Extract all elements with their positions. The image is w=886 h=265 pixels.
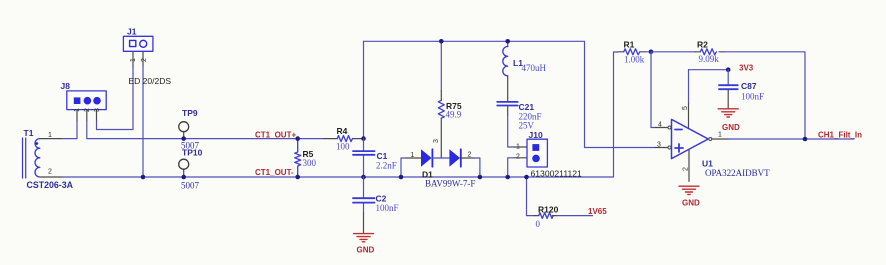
- resistor R2 zigzag: [700, 49, 716, 55]
- D1 right riser: [474, 158, 480, 177]
- svg-text:C1: C1: [377, 151, 388, 161]
- connector J8 body: [67, 91, 106, 110]
- svg-text:1: 1: [130, 58, 137, 62]
- junction R5 top: [295, 136, 300, 141]
- test point TP10 stem: [183, 169, 185, 177]
- svg-text:1.00k: 1.00k: [624, 55, 645, 65]
- 3V3 power dot: [726, 67, 731, 72]
- U1 minus symbol: [675, 129, 682, 131]
- svg-text:2.2nF: 2.2nF: [376, 161, 397, 171]
- capacitor C2: [363, 177, 365, 213]
- J8 pin3 round pad: [93, 97, 101, 105]
- op-amp pin4 stub: [655, 127, 668, 129]
- J8 pin1 stub: [76, 110, 78, 121]
- svg-text:BAV99W-7-F: BAV99W-7-F: [425, 179, 475, 189]
- svg-text:TP10: TP10: [182, 148, 203, 158]
- wire 3V3 to C87: [727, 70, 729, 85]
- svg-text:9.09k: 9.09k: [699, 54, 720, 64]
- svg-text:C2: C2: [376, 194, 387, 204]
- resistor R75 wire from top: [440, 41, 442, 91]
- svg-text:0: 0: [536, 219, 541, 229]
- test point TP9 stem: [183, 132, 185, 139]
- resistor R1 zigzag: [624, 49, 640, 55]
- D1 diode A cathode bar: [431, 149, 433, 166]
- junction R75 top: [439, 39, 444, 44]
- svg-text:49.9: 49.9: [446, 110, 462, 120]
- svg-text:CST206-3A: CST206-3A: [27, 180, 74, 190]
- D1 diode B triangle: [449, 149, 460, 166]
- resistor R75 zigzag: [438, 100, 444, 118]
- R75 bottom lead to D1: [440, 118, 442, 158]
- svg-text:470uH: 470uH: [522, 63, 547, 73]
- capacitor C21: [497, 102, 518, 106]
- wire J10 pin2 to bottom rail: [508, 158, 514, 177]
- J8 pin2 round pad: [84, 97, 92, 105]
- wire R2 right to output riser: [724, 52, 805, 139]
- J8 pin2 stub: [86, 110, 88, 121]
- wire J1.2 down to CT1_OUT- rail: [142, 67, 144, 177]
- junction D1 left: [399, 175, 404, 180]
- connector J1 body: [123, 36, 152, 51]
- J1 pin1 square pad (hollow): [130, 40, 136, 46]
- resistor R120 zigzag: [539, 213, 554, 219]
- junction D1 right: [478, 175, 483, 180]
- svg-text:5007: 5007: [181, 181, 200, 191]
- ground symbol under C2: [354, 234, 374, 242]
- wire R120 drop from bottom rail: [527, 177, 535, 216]
- pin4 end circle: [668, 126, 671, 129]
- inductor L1 coil: [503, 47, 508, 76]
- junction L1 top: [505, 39, 510, 44]
- svg-text:J8: J8: [61, 81, 71, 91]
- resistor R4 leads: [324, 138, 364, 140]
- inductor L1 top wire: [507, 41, 509, 46]
- ground symbol under U1 pin2: [679, 186, 699, 194]
- wire pin5 drop: [688, 70, 690, 104]
- junction R5 bottom: [295, 175, 300, 180]
- svg-text:61300211121: 61300211121: [531, 168, 583, 178]
- junction C1 bottom: [361, 175, 366, 180]
- svg-text:C87: C87: [741, 81, 757, 91]
- wire R1 to junction: [645, 51, 651, 53]
- svg-text:GND: GND: [357, 246, 375, 255]
- J1 pin1 stub: [132, 52, 134, 68]
- test point TP9 circle: [179, 122, 189, 132]
- svg-text:R2: R2: [697, 40, 708, 50]
- J10 pin1 stub: [514, 146, 527, 148]
- top wire from C1 riser to op-amp pin3 drop: [364, 41, 656, 147]
- bottom rail CT1_OUT- : T1.2 to R1 riser: [62, 52, 614, 177]
- transformer T1 core: [23, 138, 26, 178]
- junction TP9: [181, 136, 186, 141]
- svg-text:CT1_OUT+: CT1_OUT+: [255, 131, 296, 140]
- capacitor C87: [719, 85, 738, 89]
- svg-text:J1: J1: [127, 27, 137, 37]
- resistor R4 zigzag: [337, 136, 352, 142]
- svg-text:R1: R1: [624, 40, 635, 50]
- svg-text:1: 1: [74, 108, 81, 112]
- wire junction to R2: [651, 51, 695, 53]
- wire riser top to R1: [614, 51, 619, 53]
- J1 pin2 round pad (hollow): [140, 40, 147, 47]
- D1 diode A triangle: [421, 149, 432, 166]
- wire C21 to J10 pin1: [508, 115, 514, 147]
- svg-text:3: 3: [94, 108, 101, 112]
- output wire: [729, 138, 855, 140]
- D1 diode B cathode bar: [460, 149, 462, 166]
- output pin1 circle: [709, 138, 712, 141]
- op-amp pin3 stub: [655, 147, 668, 149]
- svg-text:R4: R4: [337, 126, 348, 136]
- R120 left lead: [534, 215, 539, 217]
- wire T1.1 to J8.1: [62, 121, 77, 139]
- R75 top lead: [440, 91, 442, 100]
- svg-text:3: 3: [657, 142, 661, 149]
- svg-text:TP9: TP9: [182, 108, 198, 118]
- svg-text:GND: GND: [722, 123, 740, 132]
- 3V3 horizontal wire: [689, 69, 729, 71]
- junction R1/R2/pin4: [649, 50, 654, 55]
- svg-text:1: 1: [718, 132, 722, 139]
- D1 pin2 lead: [461, 157, 474, 159]
- svg-text:OPA322AIDBVT: OPA322AIDBVT: [705, 168, 770, 178]
- R120 right lead: [552, 215, 557, 217]
- test point TP10 circle: [179, 159, 189, 169]
- J1 pin2 stub: [142, 52, 144, 68]
- resistor R1 leads: [618, 51, 645, 53]
- U1 plus symbol: [675, 144, 683, 152]
- vertical wire C1 column to top wire: [363, 41, 365, 138]
- svg-text:5: 5: [682, 106, 689, 110]
- svg-text:R120: R120: [538, 205, 559, 215]
- svg-text:4: 4: [658, 122, 662, 129]
- J10 pin1 square pad: [532, 144, 539, 151]
- svg-text:3: 3: [433, 139, 440, 143]
- junction R4/C1/riser: [361, 136, 366, 141]
- pin3 end circle: [668, 146, 671, 149]
- junction J1.2 on bottom rail: [141, 175, 146, 180]
- svg-text:U1: U1: [702, 159, 713, 169]
- junction TP10: [181, 175, 186, 180]
- J10 pin2 round pad: [532, 155, 540, 163]
- J10 pin2 stub: [514, 157, 527, 159]
- svg-text:2: 2: [516, 154, 520, 161]
- D1 middle wire: [432, 157, 449, 159]
- svg-text:1: 1: [411, 152, 415, 159]
- svg-text:GND: GND: [682, 199, 700, 208]
- C21 bottom lead: [507, 106, 509, 115]
- svg-text:100nF: 100nF: [741, 92, 764, 102]
- T1 pin 2 lead: [41, 176, 63, 178]
- svg-text:2: 2: [84, 108, 91, 112]
- op-amp output stub: [712, 138, 729, 140]
- svg-text:25V: 25V: [519, 121, 535, 131]
- svg-text:2: 2: [48, 169, 52, 176]
- svg-text:100nF: 100nF: [376, 203, 399, 213]
- wire J8.3 to J1.1: [97, 67, 134, 130]
- dual diode D1 left riser: [401, 158, 406, 177]
- svg-text:C21: C21: [519, 102, 535, 112]
- ground symbol under C87: [718, 109, 738, 117]
- T1 pin 1 lead: [41, 138, 63, 140]
- svg-text:1V65: 1V65: [588, 207, 607, 216]
- svg-text:T1: T1: [24, 128, 34, 138]
- svg-text:300: 300: [303, 158, 317, 168]
- svg-text:CH1_Filt_In: CH1_Filt_In: [818, 131, 862, 140]
- svg-text:CT1_OUT-: CT1_OUT-: [255, 168, 294, 177]
- transformer T1 phase dot: [35, 142, 38, 145]
- capacitor C1: [363, 139, 365, 177]
- J8 pin1 square pad: [74, 97, 81, 104]
- wire J8.2 down to CT1_OUT+ rail: [87, 121, 324, 139]
- junction output/R2 feedback: [803, 137, 808, 142]
- C87 lead to ground: [727, 90, 729, 108]
- transformer T1 winding: [35, 139, 40, 177]
- junction J10.2 bottom: [505, 175, 510, 180]
- op-amp pin5 stub: [688, 104, 690, 129]
- junction R120: [524, 175, 529, 180]
- connector J10 body: [527, 139, 547, 167]
- svg-text:2: 2: [141, 58, 148, 62]
- svg-text:1: 1: [48, 132, 52, 139]
- resistor R2 leads: [695, 51, 724, 53]
- svg-text:J10: J10: [529, 130, 543, 140]
- svg-text:1: 1: [516, 144, 520, 151]
- op-amp pin2 stub: [688, 149, 690, 181]
- svg-text:2: 2: [468, 152, 472, 159]
- L1 bottom lead to C21: [507, 76, 509, 101]
- svg-text:ED 20/2DS: ED 20/2DS: [129, 76, 172, 86]
- C2 lead to ground: [363, 213, 365, 233]
- wire junction to op-amp pin4: [651, 52, 655, 128]
- resistor R5 (vertical): [295, 139, 301, 177]
- J8 pin3 stub: [96, 110, 98, 121]
- D1 pin1 lead: [406, 157, 421, 159]
- svg-text:100: 100: [336, 142, 350, 152]
- svg-text:3V3: 3V3: [739, 64, 754, 73]
- op-amp U1 triangle: [672, 119, 709, 158]
- wire R120 to 1V65: [557, 215, 593, 217]
